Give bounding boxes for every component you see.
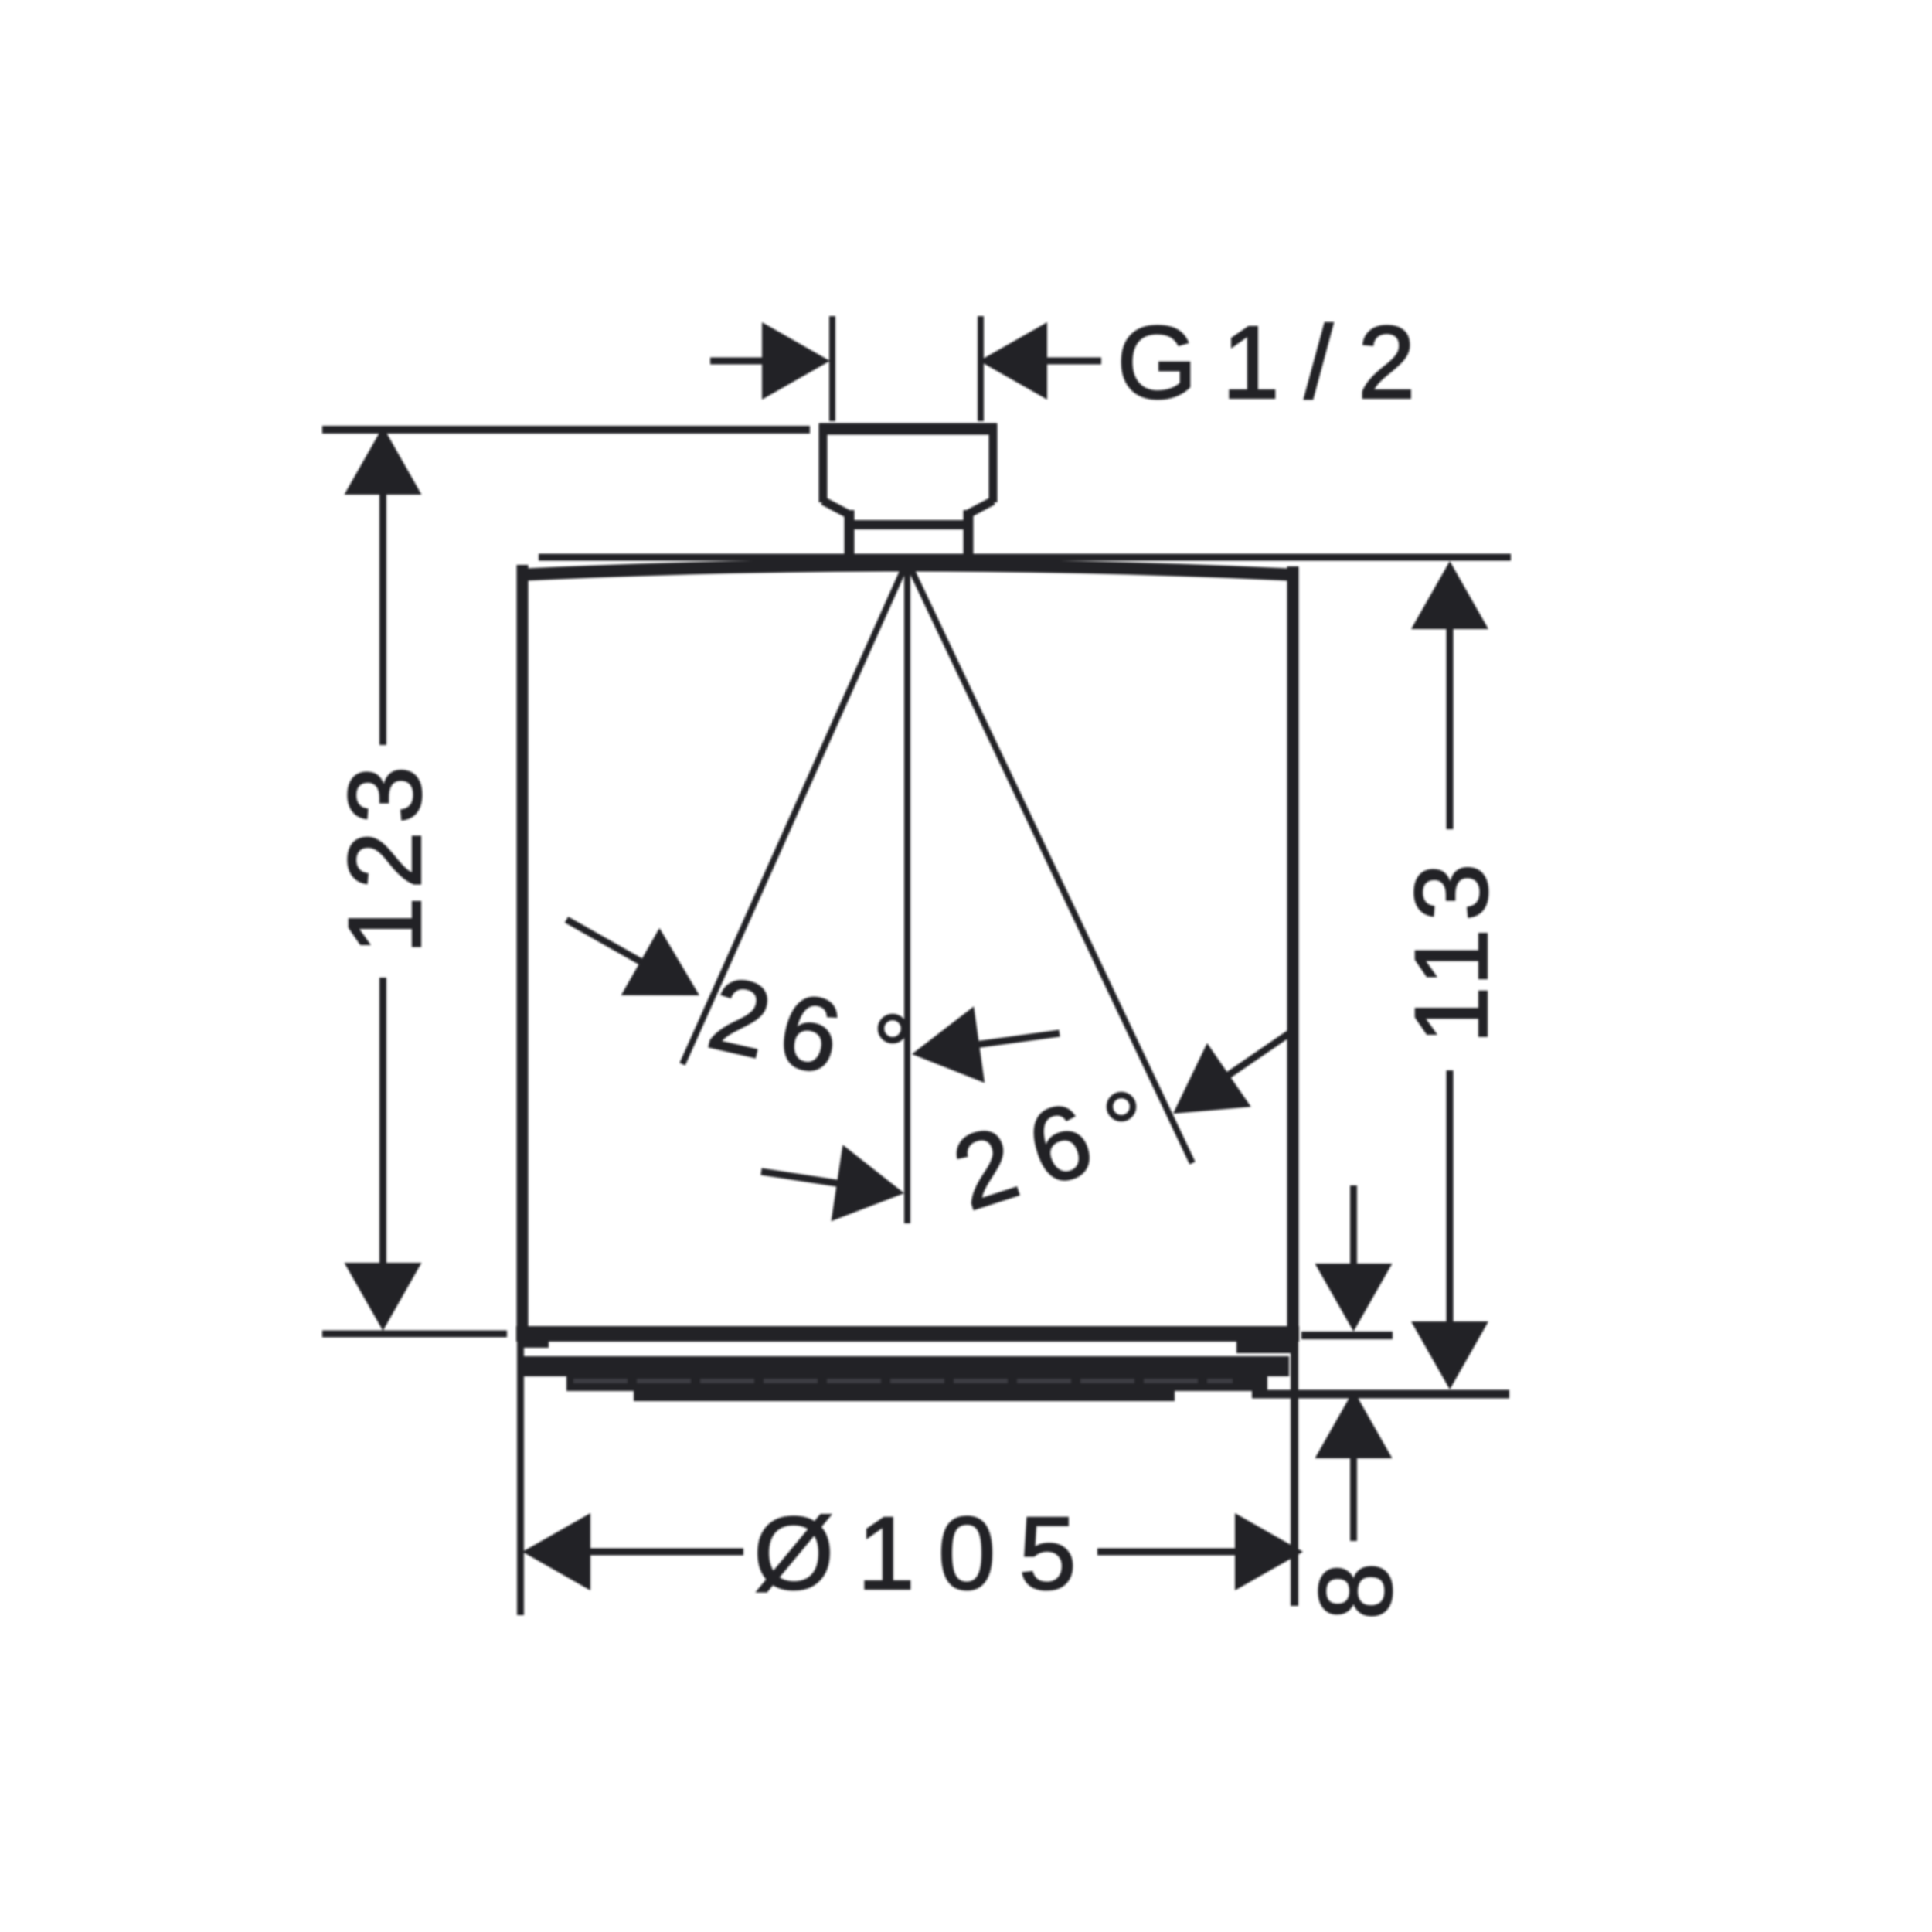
113 up arrowhead xyxy=(1411,561,1488,629)
8 up arrowhead xyxy=(1315,1390,1393,1458)
left horizontal angle arrowhead xyxy=(912,1006,985,1083)
G1/2 right arrowhead xyxy=(979,322,1047,400)
diameter 105 right arrowhead xyxy=(1235,1513,1303,1590)
8 dimension line upper tail xyxy=(1350,1185,1357,1267)
svg-text:113: 113 xyxy=(1394,855,1509,1044)
connector neck: inner seam line xyxy=(845,520,973,529)
G1/2 left arrow tail xyxy=(710,358,765,365)
body outline: left edge xyxy=(517,565,529,1331)
centre axis line xyxy=(904,561,910,1223)
G1/2 right arrow tail xyxy=(1045,358,1101,365)
113 dimension line lower segment xyxy=(1447,1070,1454,1323)
G1/2 left arrowhead xyxy=(762,322,830,400)
spray plate upper band xyxy=(519,1356,1289,1376)
spray plate lower band xyxy=(566,1376,1267,1391)
body outline: top rim edge xyxy=(518,566,1297,576)
diameter 105 right extension line xyxy=(1291,1338,1298,1606)
spray disc rim left tab xyxy=(518,1339,549,1348)
right horizontal angle arrowhead xyxy=(832,1145,905,1221)
8 top extension line xyxy=(1301,1332,1393,1339)
left spray angle line xyxy=(682,561,907,1064)
degree circle of left 26 label xyxy=(881,1017,904,1040)
123 dimension line upper segment xyxy=(379,492,386,745)
left angle arrowhead xyxy=(621,928,699,995)
diameter 105 left arrowhead xyxy=(522,1513,590,1590)
G1/2 right extension line xyxy=(978,316,984,421)
spray plate seam line xyxy=(573,1379,1233,1383)
connector nut: left side xyxy=(819,423,828,502)
connector neck: right side xyxy=(964,510,974,558)
123 down arrowhead xyxy=(345,1263,422,1331)
svg-text:123: 123 xyxy=(328,758,443,954)
body outline: right edge xyxy=(1287,566,1299,1331)
connector nut: right chamfer xyxy=(967,501,993,515)
123 up arrowhead xyxy=(345,427,422,495)
svg-text:G1/2: G1/2 xyxy=(1117,305,1440,420)
connector nut: top edge xyxy=(819,423,997,435)
123 bottom extension line xyxy=(322,1331,507,1338)
body outline: dome surface line continuing into 113 extension xyxy=(539,554,1511,561)
diameter 105 dimension line right segment xyxy=(1097,1549,1236,1556)
right spray angle line xyxy=(907,561,1192,1163)
spray plate bottom band xyxy=(634,1388,1175,1401)
degree circle of right 26 label xyxy=(1110,1095,1133,1118)
123 dimension line lower segment xyxy=(379,978,386,1267)
G1/2 left extension line xyxy=(829,316,835,421)
connector nut: left chamfer xyxy=(823,501,849,515)
123 top extension line xyxy=(322,426,810,434)
connector nut: right side xyxy=(989,423,998,502)
113 down arrowhead xyxy=(1411,1321,1488,1389)
body outline: bottom edge xyxy=(516,1326,1299,1342)
26 left horizontal arrow tail xyxy=(975,1033,1060,1045)
8 bottom extension line xyxy=(1252,1390,1509,1399)
svg-text:8: 8 xyxy=(1298,1563,1413,1621)
8 down arrowhead xyxy=(1315,1264,1393,1332)
connector neck: left side xyxy=(845,510,855,558)
right angle arrowhead xyxy=(1173,1043,1251,1114)
svg-text:Ø105: Ø105 xyxy=(753,1496,1100,1611)
26 right horizontal arrow tail xyxy=(761,1172,842,1184)
26 right angle arrow tail xyxy=(1224,1032,1291,1078)
26 left angle arrow tail xyxy=(566,920,643,963)
8 dimension line lower tail xyxy=(1350,1454,1357,1541)
113 dimension line upper segment xyxy=(1447,626,1454,829)
diameter 105 dimension line left segment xyxy=(587,1549,743,1556)
diameter 105 left extension line xyxy=(517,1338,524,1615)
spray disc rim right tab xyxy=(1236,1340,1298,1353)
